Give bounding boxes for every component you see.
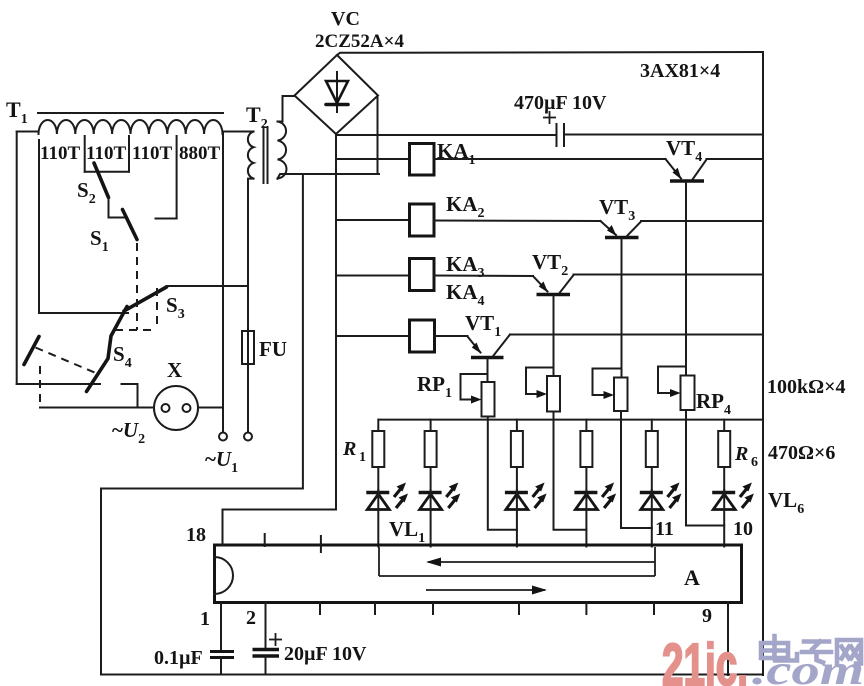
capacitor 0.1uF xyxy=(210,652,234,658)
wire to socket X left xyxy=(40,407,154,409)
capacitor 20uF value label xyxy=(284,643,367,665)
svg-text:VT4: VT4 xyxy=(666,136,702,165)
switch S1 blade xyxy=(123,210,138,240)
svg-text:KA4: KA4 xyxy=(446,280,485,309)
wire VL3 to IC xyxy=(516,510,518,547)
transformer T1 winding xyxy=(39,120,223,134)
svg-text:.com: .com xyxy=(752,648,864,686)
wire to S1 left contact xyxy=(109,217,126,219)
svg-text:R: R xyxy=(734,443,748,465)
resistor R6 xyxy=(718,420,730,490)
relay coil KA4 xyxy=(410,320,435,352)
transformer T1 core xyxy=(38,112,223,114)
wire fuse to terminal xyxy=(247,364,249,432)
wire S4 right contact xyxy=(122,384,138,408)
svg-text:470µF 10V: 470µF 10V xyxy=(514,92,607,114)
capacitor 20uF xyxy=(253,650,280,657)
bridge rectifier VC diamond xyxy=(295,55,379,134)
wire VT1 base down to RP1 xyxy=(487,359,489,382)
label ~U1 xyxy=(205,447,238,476)
svg-text:VL6: VL6 xyxy=(768,488,804,517)
transistor VT4 label xyxy=(666,136,702,165)
resistor R2 xyxy=(425,420,437,490)
transistor VT1 label xyxy=(465,311,501,340)
potentiometer RP4 xyxy=(658,367,695,411)
IC A body xyxy=(215,545,742,603)
wire to relay KA1 xyxy=(336,158,410,160)
T1 winding value label 880T xyxy=(179,143,221,164)
transistor VT3 label xyxy=(599,195,635,224)
potentiometer RP4 label xyxy=(696,389,731,418)
terminal circle U1 left xyxy=(219,433,227,441)
svg-text:S3: S3 xyxy=(166,293,185,322)
wire T2 rail branch down left side xyxy=(101,174,303,675)
potentiometer RP2 xyxy=(526,368,560,412)
svg-text:1: 1 xyxy=(359,450,366,465)
terminal circle U1 right xyxy=(244,433,252,441)
pin 9 label xyxy=(702,605,712,627)
wire pin 1 to 0.1uF xyxy=(220,603,222,652)
svg-text:2CZ52A×4: 2CZ52A×4 xyxy=(315,31,404,52)
IC bottom pin stubs xyxy=(320,603,654,615)
socket X label xyxy=(167,358,182,382)
switch S1 label xyxy=(90,226,109,255)
svg-text:10: 10 xyxy=(733,518,753,540)
wire VT4 collector to right rail xyxy=(707,158,764,160)
svg-text:KA1: KA1 xyxy=(437,139,476,168)
resistor R5 xyxy=(646,420,658,490)
svg-text:R: R xyxy=(342,438,356,460)
fuse FU xyxy=(242,331,254,364)
pin 2 label xyxy=(246,607,256,629)
bridge diode symbol xyxy=(326,72,348,112)
wire relay KA3 to VT2 xyxy=(434,275,533,278)
wire resistor rail xyxy=(379,419,763,421)
transformer T2 secondary winding xyxy=(278,122,287,179)
wire RP1 bottom jog to IC pin xyxy=(488,417,517,530)
wire right rail xyxy=(762,52,764,675)
svg-text:VL1: VL1 xyxy=(389,517,425,546)
wire VT3 collector to right rail xyxy=(641,220,763,222)
wire bottom rail xyxy=(101,674,763,676)
transistor VT2 xyxy=(533,275,574,295)
switch S3 blade xyxy=(124,287,167,311)
wire to relay KA2 xyxy=(336,219,410,221)
svg-text:20µF 10V: 20µF 10V xyxy=(284,643,367,665)
wire RP4 bottom jog to IC pin xyxy=(686,410,724,526)
wire T1 left end to outer line xyxy=(17,131,39,133)
wire 0.1uF to bottom rail xyxy=(220,658,222,675)
transformer T2 core xyxy=(264,127,268,183)
IC A label xyxy=(684,565,700,590)
watermark dianziwang glyphs xyxy=(761,636,861,664)
transistor VT4 xyxy=(666,159,707,181)
wire socket X right to terminal column xyxy=(198,407,223,409)
wire T1 first tap vertical xyxy=(38,140,40,313)
switch S4 label xyxy=(113,342,132,371)
svg-text:~U2: ~U2 xyxy=(112,418,145,447)
potentiometer RP1 label xyxy=(417,372,452,401)
relay coil KA1 xyxy=(410,144,435,176)
switch S2 label xyxy=(77,178,96,207)
wire T2 secondary bottom to rail xyxy=(278,174,380,179)
label 3AX81×4 xyxy=(640,60,720,82)
dashed linkage horizontal xyxy=(115,329,157,331)
capacitor 470uF value label xyxy=(514,92,607,114)
wire pin 2 to 20uF xyxy=(265,603,267,650)
wire VT1 collector to right rail xyxy=(510,334,763,336)
wire relay KA4 to VT1 xyxy=(435,335,468,337)
label VL6 right xyxy=(768,488,804,517)
switch S4 blade xyxy=(87,307,128,392)
relay KA1 label xyxy=(437,139,476,168)
label 470Ω×6 xyxy=(768,442,835,464)
wire VT3 base down to RP3 xyxy=(621,239,623,378)
dashed linkage S1 vertical xyxy=(136,243,138,330)
transistor VT1 xyxy=(468,335,511,358)
svg-text:0.1µF: 0.1µF xyxy=(154,647,203,669)
wire pin 18 xyxy=(223,510,337,546)
svg-text:1: 1 xyxy=(200,608,210,630)
wire RP3 bottom jog to IC pin xyxy=(621,411,652,528)
svg-text:S4: S4 xyxy=(113,342,132,371)
wire VL1 to IC xyxy=(377,510,379,547)
watermark 21ic xyxy=(662,632,748,686)
relay KA4 label xyxy=(446,280,485,309)
pin 11 label xyxy=(655,518,674,540)
wire to relay KA3 xyxy=(336,275,410,277)
bridge rectifier type label 2CZ52A×4 xyxy=(315,31,404,52)
switch blade left (ganged with S4) xyxy=(24,337,39,365)
svg-text:RP1: RP1 xyxy=(417,372,452,401)
wire S3 to fuse branch xyxy=(167,285,249,287)
wire to relay KA4 xyxy=(336,335,410,337)
wire VT2 base down to RP2 xyxy=(553,296,555,376)
wire VL6 to IC xyxy=(723,510,725,547)
potentiometer RP1 xyxy=(461,374,495,417)
dashed linkage vertical left xyxy=(39,366,41,406)
wire T2 primary bottom to fuse xyxy=(248,179,254,331)
svg-text:21ic.: 21ic. xyxy=(662,632,748,686)
svg-text:9: 9 xyxy=(702,605,712,627)
wire VL5 to IC xyxy=(651,510,653,547)
svg-text:110T: 110T xyxy=(86,143,126,164)
resistor R4 xyxy=(580,420,592,490)
wire tap A of T1 xyxy=(84,136,86,172)
pin 1 label xyxy=(200,608,210,630)
socket X circle xyxy=(154,386,198,430)
wire T1 outer left vertical xyxy=(16,132,18,385)
wire top rail from bridge top xyxy=(337,52,763,55)
svg-text:11: 11 xyxy=(655,518,674,540)
svg-text:T1: T1 xyxy=(6,97,28,127)
dashed linkage diagonal xyxy=(36,348,95,373)
bridge rectifier VC label xyxy=(331,8,360,30)
wire relay KA1 to VT4 xyxy=(434,158,666,160)
svg-text:VT2: VT2 xyxy=(532,250,568,279)
wire from S2 down xyxy=(108,198,110,218)
svg-text:S1: S1 xyxy=(90,226,109,255)
LED VL1 xyxy=(366,483,408,510)
IC internal flow lines xyxy=(379,547,655,595)
wire 880T end down to terminal xyxy=(222,132,224,433)
svg-text:470Ω×6: 470Ω×6 xyxy=(768,442,835,464)
capacitor 470uF plates xyxy=(557,124,565,146)
relay KA2 label xyxy=(446,192,485,221)
svg-text:3AX81×4: 3AX81×4 xyxy=(640,60,720,82)
wire 20uF to bottom rail xyxy=(265,656,267,675)
dashed linkage right vertical xyxy=(156,288,158,330)
resistor R6 label xyxy=(734,443,758,470)
capacitor 20uF polarity + xyxy=(269,633,282,646)
svg-text:110T: 110T xyxy=(132,143,172,164)
capacitor 0.1uF label xyxy=(154,647,203,669)
wire pin 9 down xyxy=(727,603,729,676)
wire bridge bottom corner vertical xyxy=(335,134,337,510)
svg-text:KA2: KA2 xyxy=(446,192,485,221)
wire bottom left horizontal to S4 contact xyxy=(17,383,100,385)
socket X left pin xyxy=(162,404,170,412)
LED VL4 xyxy=(574,483,616,510)
T1 winding value label 110T (section 2) xyxy=(86,143,126,164)
svg-text:RP4: RP4 xyxy=(696,389,731,418)
relay coil KA2 xyxy=(410,204,435,236)
transformer T2 primary winding xyxy=(248,132,254,179)
LED VL3 xyxy=(505,483,547,510)
IC top pin stub xyxy=(264,534,266,546)
T1 winding value label 110T (section 3) xyxy=(132,143,172,164)
wire VL4 to IC xyxy=(585,510,587,547)
LED VL2 xyxy=(419,483,461,510)
wire tap C of T1 xyxy=(176,136,178,219)
wire 470uF capacitor right to rail xyxy=(566,134,764,136)
wire bridge right corner down to T2 rail xyxy=(377,96,379,174)
svg-text:880T: 880T xyxy=(179,143,221,164)
capacitor 470uF polarity + xyxy=(543,111,556,124)
wire VT2 collector to right rail xyxy=(574,274,764,276)
svg-text:VT3: VT3 xyxy=(599,195,635,224)
watermark .com xyxy=(752,648,864,686)
resistor R3 xyxy=(511,420,523,490)
wire to S4 blade top xyxy=(39,312,128,314)
svg-text:100kΩ×4: 100kΩ×4 xyxy=(767,376,846,398)
resistor R1 label xyxy=(342,438,366,465)
IC A notch xyxy=(215,557,234,594)
svg-text:VT1: VT1 xyxy=(465,311,501,340)
relay KA3 label xyxy=(446,252,485,281)
fuse FU label xyxy=(259,337,287,361)
resistor R1 xyxy=(372,420,384,490)
label ~U2 xyxy=(112,418,145,447)
svg-text:X: X xyxy=(167,358,182,382)
wire tap B of T1 xyxy=(128,136,130,172)
switch S2 blade xyxy=(94,163,109,198)
socket X right pin xyxy=(183,404,191,412)
transistor VT2 label xyxy=(532,250,568,279)
relay coil KA3 xyxy=(410,259,435,291)
svg-text:~U1: ~U1 xyxy=(205,447,238,476)
svg-text:6: 6 xyxy=(751,455,758,470)
wire bracket under S2 xyxy=(85,171,129,173)
wire relay KA2 to VT3 xyxy=(434,220,601,223)
wire RP2 bottom jog to IC pin xyxy=(554,412,587,530)
switch S3 label xyxy=(166,293,185,322)
LED VL5 xyxy=(640,483,682,510)
T1 winding value label 110T (section 1) xyxy=(40,143,80,164)
svg-text:S2: S2 xyxy=(77,178,96,207)
transistor VT3 xyxy=(601,221,642,238)
IC top pin stub xyxy=(320,536,322,552)
pin 10 label xyxy=(733,518,753,540)
svg-text:FU: FU xyxy=(259,337,287,361)
svg-text:2: 2 xyxy=(246,607,256,629)
transformer T1 label xyxy=(6,97,28,127)
svg-text:110T: 110T xyxy=(40,143,80,164)
svg-text:18: 18 xyxy=(186,524,206,546)
wire 880T end to T2 primary top xyxy=(223,131,254,133)
wire VL2 to IC xyxy=(430,510,432,547)
svg-text:VC: VC xyxy=(331,8,360,30)
LED VL1 label xyxy=(389,517,425,546)
svg-text:A: A xyxy=(684,565,700,590)
wire to 470uF capacitor left xyxy=(336,134,555,136)
potentiometer RP3 xyxy=(593,369,628,412)
wire from S1 right contact to tap C xyxy=(156,218,177,220)
LED VL6 xyxy=(712,483,754,510)
wire VT4 base down to RP4 xyxy=(685,182,687,376)
wire T2 secondary top hook xyxy=(278,96,295,122)
transformer T2 label xyxy=(246,102,268,132)
label 100kΩ×4 xyxy=(767,376,846,398)
pin 18 label xyxy=(186,524,206,546)
